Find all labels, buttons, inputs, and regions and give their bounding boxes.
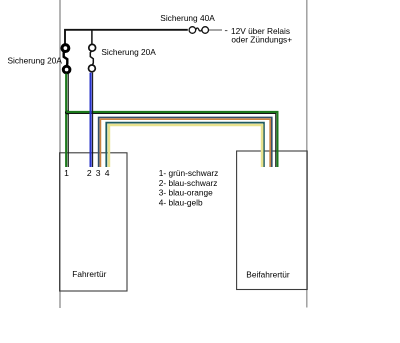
wire 1 grün-schwarz: green vertical from F1 to pin 1 xyxy=(65,74,67,167)
wire 1 horizontal run: black partner xyxy=(68,114,276,168)
svg-text:1: 1 xyxy=(64,168,69,178)
wire 3 blau-orange: blue line (pin 3 to Beifahrertür) xyxy=(99,117,272,167)
wire 3 blau-orange: orange line xyxy=(100,119,270,167)
box Beifahrertür (passenger door unit) xyxy=(237,151,308,290)
wire: drop from bus to fuse F2 xyxy=(91,30,93,44)
wire 1 horizontal run to Beifahrertür: green xyxy=(66,112,277,167)
wire 1 grün-schwarz: black partner vertical xyxy=(67,74,69,167)
svg-text:Sicherung 40A: Sicherung 40A xyxy=(160,13,215,23)
fuse F2 Sicherung 20A (right) xyxy=(89,44,96,71)
svg-text:2: 2 xyxy=(87,168,92,178)
svg-text:Sicherung 20A: Sicherung 20A xyxy=(101,47,156,57)
wire: thin lead from fuse F3 to supply text xyxy=(209,29,222,31)
fuse F3 Sicherung 40A (horizontal) xyxy=(189,27,208,34)
svg-text:Beifahrertür: Beifahrertür xyxy=(246,270,290,280)
svg-text:Fahrertür: Fahrertür xyxy=(72,269,106,279)
svg-text:3: 3 xyxy=(96,168,101,178)
wire: dash continuation of lead before supply text xyxy=(225,30,228,32)
wire: 12V supply bus (horizontal) xyxy=(65,30,188,44)
wire 4 blau-gelb: yellow line xyxy=(109,125,262,167)
svg-text:3- blau-orange: 3- blau-orange xyxy=(159,188,213,198)
wire 2 blau-schwarz: black partner vertical xyxy=(92,73,94,167)
wire 4 blau-gelb: blue (teal) line (pin 4 to Beifahrertür) xyxy=(106,123,264,167)
svg-text:2- blau-schwarz: 2- blau-schwarz xyxy=(159,178,218,188)
node: junction on wire 1 xyxy=(65,111,70,115)
fuse F1 Sicherung 20A (left, bold) xyxy=(62,45,70,73)
svg-text:oder Zündungs+: oder Zündungs+ xyxy=(231,34,292,44)
svg-text:1- grün-schwarz: 1- grün-schwarz xyxy=(159,168,218,178)
box Fahrertür (driver door unit) xyxy=(60,153,127,291)
svg-text:4: 4 xyxy=(105,168,110,178)
wire 2 blau-schwarz: blue vertical from F2 to pin 2 xyxy=(89,73,91,167)
svg-text:Sicherung 20A: Sicherung 20A xyxy=(8,56,63,66)
svg-text:4- blau-gelb: 4- blau-gelb xyxy=(159,197,203,207)
